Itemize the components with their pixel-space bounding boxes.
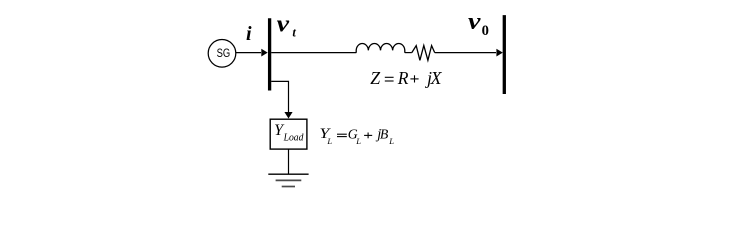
branch wire from bus 1 toward load — [271, 81, 288, 112]
svg-text:L: L — [355, 136, 361, 146]
wire resistor to bus 2 — [435, 52, 496, 54]
svg-text:t: t — [292, 26, 296, 40]
label v_t — [277, 11, 297, 40]
wire load box to ground — [288, 149, 290, 174]
bus 1 (terminal bus) — [268, 18, 271, 90]
arrowhead into load box — [284, 112, 292, 119]
svg-text:L: L — [388, 136, 394, 146]
ground line 1 — [268, 173, 308, 175]
svg-text:R: R — [397, 68, 409, 88]
bus 2 (infinite bus) — [503, 15, 506, 94]
svg-text:SG: SG — [217, 46, 231, 60]
svg-text:0: 0 — [482, 23, 489, 39]
load box Y_Load — [270, 119, 307, 149]
label v_0 — [468, 8, 489, 39]
label Z = R + jX — [370, 68, 442, 88]
svg-text:X: X — [430, 68, 443, 88]
wire SG to bus 1 — [236, 52, 261, 54]
ground line 3 — [282, 186, 295, 188]
svg-text:L: L — [326, 136, 332, 146]
wire inductor to resistor — [405, 52, 412, 54]
label Y_Load — [274, 122, 304, 144]
arrowhead of current i into bus 1 — [261, 49, 267, 57]
svg-text:i: i — [246, 23, 252, 45]
svg-text:v: v — [277, 11, 291, 38]
label Y_L = G_L + jB_L — [319, 126, 394, 146]
inductor (series reactance X) — [356, 43, 405, 52]
svg-text:v: v — [468, 8, 482, 35]
resistor (series resistance R) — [412, 46, 435, 61]
arrowhead into bus 2 — [496, 49, 502, 57]
svg-text:Load: Load — [283, 132, 304, 144]
svg-text:Z: Z — [370, 68, 381, 88]
svg-text:B: B — [380, 127, 389, 142]
generator SG — [208, 40, 236, 68]
ground line 2 — [276, 179, 302, 181]
wire bus 1 to inductor — [271, 52, 356, 54]
